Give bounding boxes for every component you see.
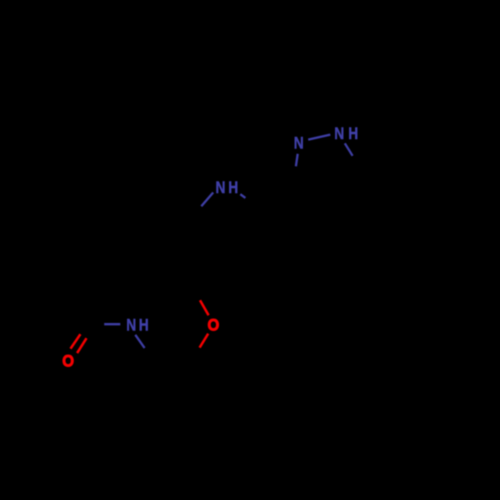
svg-text:H: H [348, 125, 358, 143]
svg-text:H: H [139, 316, 149, 334]
svg-text:O: O [62, 353, 74, 371]
svg-text:N: N [334, 125, 344, 143]
svg-text:N: N [294, 134, 304, 152]
svg-text:H: H [228, 179, 238, 197]
svg-text:O: O [208, 317, 220, 335]
svg-text:N: N [216, 179, 226, 197]
svg-text:N: N [126, 316, 136, 334]
